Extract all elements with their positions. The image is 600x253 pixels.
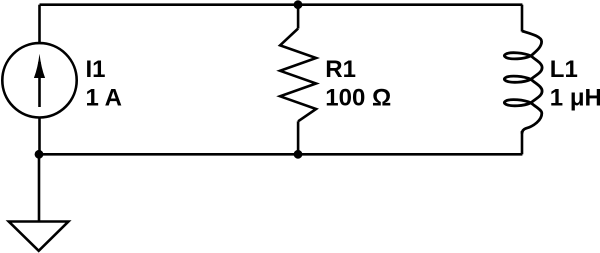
svg-text:1 μH: 1 μH [550, 84, 600, 111]
wire current source bottom to node [38, 117, 41, 155]
svg-text:L1: L1 [550, 56, 578, 83]
wire resistor to bottom rail [297, 121, 300, 154]
node top center junction dot [294, 0, 303, 9]
wire bottom rail [39, 153, 522, 156]
current source I1 [2, 43, 76, 117]
svg-text:R1: R1 [325, 56, 356, 83]
resistor R1 [280, 29, 316, 122]
inductor L1 [504, 31, 542, 134]
ground [9, 222, 69, 251]
node bottom center junction dot [294, 150, 303, 159]
svg-text:100 Ω: 100 Ω [325, 84, 391, 111]
wire top rail [40, 3, 523, 6]
svg-text:1 A: 1 A [86, 84, 122, 111]
wire left vertical from top rail to current source [38, 5, 41, 44]
wire inductor to bottom rail [521, 131, 524, 154]
svg-text:I1: I1 [86, 56, 106, 83]
wire ground lead [38, 154, 41, 221]
wire top rail to resistor [297, 5, 300, 29]
node bottom left junction dot [35, 150, 44, 159]
wire top rail right corner to inductor [521, 5, 524, 32]
